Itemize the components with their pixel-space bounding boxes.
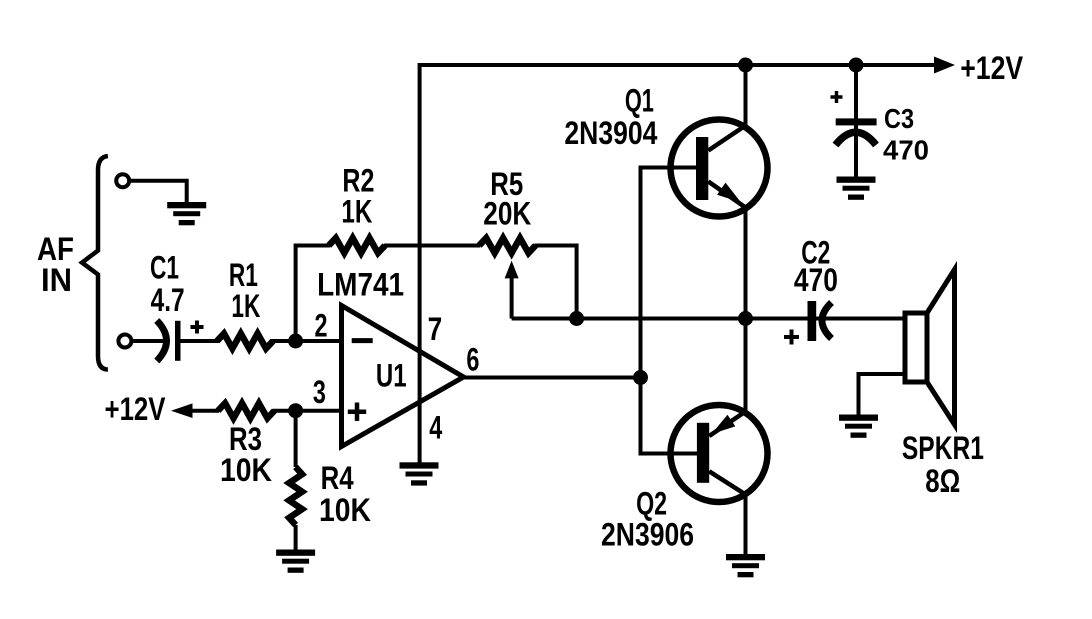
- resistor R5: [479, 238, 535, 253]
- svg-text:Q1: Q1: [625, 83, 654, 119]
- svg-text:470: 470: [794, 262, 838, 298]
- svg-text:1K: 1K: [341, 194, 372, 230]
- ground R4: [276, 550, 315, 573]
- ground Q2 collector: [726, 554, 765, 577]
- node junction R5-output: [569, 311, 584, 326]
- capacitor C1: [157, 321, 204, 362]
- wire Q2 base lead: [639, 452, 699, 456]
- node junction pin2: [288, 334, 303, 349]
- wire feedback left vertical: [294, 244, 298, 342]
- terminal lower AF IN: [118, 335, 131, 348]
- wire R1 to pin2: [271, 339, 342, 343]
- wire R3 to pin3: [273, 409, 342, 413]
- node +12V arrow right: [934, 57, 955, 74]
- wire R3 lead left: [191, 409, 219, 413]
- node junction emitters: [738, 311, 753, 326]
- svg-text:10K: 10K: [220, 452, 272, 488]
- node junction rail-Q1: [738, 58, 753, 73]
- wire output node line: [512, 317, 824, 321]
- speaker SPKR1: [905, 270, 955, 425]
- svg-text:+12V: +12V: [960, 50, 1024, 86]
- wire Q1 base lead: [639, 166, 698, 170]
- resistor R1: [217, 334, 273, 349]
- resistor R2: [329, 238, 385, 253]
- svg-text:2: 2: [315, 308, 328, 344]
- svg-text:U1: U1: [376, 358, 407, 394]
- wire feedback top horizontal: [296, 244, 330, 248]
- wire R5 right lead: [535, 246, 577, 319]
- wire R5 wiper: [510, 276, 514, 319]
- svg-text:IN: IN: [41, 262, 72, 298]
- svg-text:470: 470: [883, 135, 929, 166]
- svg-text:C1: C1: [150, 250, 179, 286]
- svg-text:1K: 1K: [231, 288, 260, 324]
- wire upper terminal to ground: [129, 181, 187, 202]
- wire top +12V rail: [420, 63, 938, 67]
- svg-text:4.7: 4.7: [151, 282, 185, 318]
- node junction rail-C3: [849, 58, 864, 73]
- wire C3 top lead: [854, 63, 858, 136]
- wire C1 to R1: [180, 339, 219, 343]
- wire R4 bottom lead: [294, 525, 298, 550]
- wire Q2 collector vertical: [744, 493, 748, 555]
- ground upper terminal: [167, 202, 206, 225]
- terminal upper AF IN: [116, 174, 129, 187]
- svg-text:4: 4: [429, 409, 442, 445]
- node R5 wiper arrow: [505, 261, 519, 279]
- wire input terminal to C1: [131, 339, 163, 343]
- svg-text:SPKR1: SPKR1: [902, 430, 984, 466]
- svg-text:+12V: +12V: [105, 391, 167, 427]
- transistor Q2: [671, 405, 768, 502]
- node junction pin3: [288, 403, 303, 418]
- wire speaker ground lead: [859, 374, 907, 415]
- wire Q1 collector vertical: [744, 63, 748, 127]
- svg-text:2N3904: 2N3904: [564, 115, 657, 151]
- wire bases vertical: [639, 168, 643, 454]
- capacitor C2: [784, 301, 832, 345]
- transistor Q1: [671, 120, 768, 217]
- resistor R3: [218, 403, 274, 418]
- wire C3 bottom lead: [854, 133, 858, 177]
- svg-text:7: 7: [428, 311, 443, 347]
- resistor R4: [289, 467, 302, 525]
- svg-text:10K: 10K: [319, 492, 371, 528]
- wire R4 top lead: [294, 411, 298, 467]
- svg-text:6: 6: [466, 342, 479, 378]
- brace AF IN: [82, 156, 108, 370]
- wire op-amp output: [463, 376, 641, 380]
- op-amp plus sign: [348, 403, 366, 421]
- node junction output-bases: [633, 370, 648, 385]
- wire Q2 emitter vertical: [744, 319, 748, 414]
- node +12V arrow left: [171, 403, 193, 418]
- svg-text:20K: 20K: [483, 196, 531, 232]
- svg-text:3: 3: [313, 374, 326, 410]
- op-amp U1 triangle: [342, 306, 464, 447]
- ground C3: [837, 177, 876, 200]
- ground speaker: [839, 415, 878, 438]
- svg-text:8Ω: 8Ω: [925, 463, 960, 499]
- svg-text:LM741: LM741: [317, 266, 404, 302]
- capacitor C3: [831, 91, 877, 145]
- wire C2 to speaker: [824, 317, 906, 321]
- ground op-amp pin4: [400, 462, 439, 485]
- svg-text:R4: R4: [321, 460, 354, 496]
- op-amp minus sign: [352, 338, 373, 343]
- wire R2 to R5: [384, 244, 480, 248]
- wire Q1 emitter vertical: [744, 206, 748, 319]
- wire pin7 supply vertical: [418, 63, 422, 463]
- svg-text:2N3906: 2N3906: [601, 517, 694, 553]
- svg-text:C3: C3: [884, 103, 914, 134]
